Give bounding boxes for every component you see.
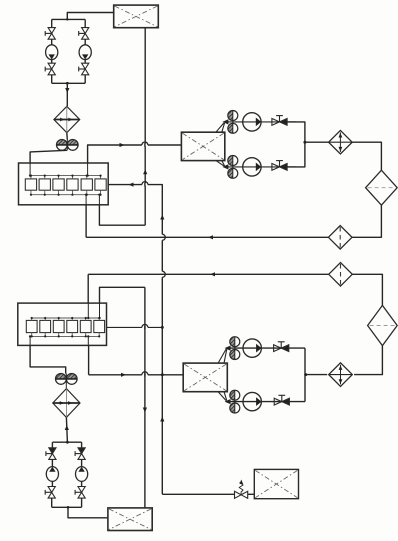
meter M3 (stacked rotors, bottom branch)	[228, 156, 238, 179]
pipe: CH2 top stub (x88)	[87, 303, 89, 319]
valve V3 (isolating, pump 1 discharge)	[45, 63, 55, 75]
valve V8 (check/stop, TB bottom branch)	[274, 395, 289, 405]
pipe: valve V1 to pump P1	[51, 39, 53, 45]
pump P3 (condenser pump, top)	[243, 113, 262, 131]
pipe: filter F1 to meter M1	[66, 133, 69, 140]
pipe: CH2 bottom stub (x88)	[87, 335, 89, 345]
chiller CH2 (6 compressor modules)	[18, 303, 107, 345]
chiller CH1 (6 compressor modules)	[19, 163, 109, 205]
pipe: node N2 branch riser	[304, 348, 306, 402]
nozzle arrow into tank TA bottom-right	[216, 161, 229, 170]
flow device D4 (diamond, double arrow)	[329, 363, 353, 387]
valve V6 (check/stop, bottom branch)	[272, 161, 287, 171]
pipe: pump P7 to valve V11	[51, 481, 53, 486]
valve V10 (check, pump 8 top)	[75, 448, 85, 460]
pipe: valve V9 to pump P7	[51, 459, 53, 466]
pipe: CH1 bottom outlet stub (x99)	[98, 194, 100, 205]
pipe: bottom pump group header	[52, 441, 81, 448]
nozzle arrow into tank TB bottom-right	[218, 392, 231, 405]
line jog: return riser over condenser return	[161, 234, 166, 240]
pump P8	[76, 467, 88, 482]
pipe: CH2 outlet to meter M6	[30, 345, 66, 373]
pipe: top pump group header	[52, 19, 85, 27]
line hop: condenser supply over vertical main	[142, 142, 148, 147]
filter F1 (diamond strainer)	[54, 106, 80, 132]
pipe: CT2 outlet down to D4	[354, 346, 382, 375]
pipe: CH2 top stub (x99)	[98, 303, 100, 319]
relief valve RV1 (spring)	[235, 480, 248, 499]
pipe: pumps to collector	[52, 75, 85, 84]
pipe: CH2 right port to return riser	[107, 326, 163, 328]
pipe: filter F2 to bottom pump group with arrow	[65, 417, 69, 442]
pipe: TA top branch	[224, 121, 296, 123]
pipe: return riser bottom elbow to relief valve	[162, 493, 234, 495]
line hop: CH2 right port over vertical main	[142, 324, 148, 329]
valve V7 (check/stop, TB top branch)	[274, 342, 289, 352]
valve V11 (isolating, pump 7 bottom)	[45, 487, 55, 499]
pipe: CT1 outlet down	[352, 205, 381, 237]
pipe: TA bottom branch	[224, 166, 296, 168]
flow device D3 (diamond, dashed)	[329, 263, 353, 287]
flow meter M6 (twin rotors)	[56, 374, 78, 385]
junction: pump group outlet	[66, 82, 69, 85]
pipe: pump P1 to valve V3	[51, 60, 53, 64]
pipe: CH1 right port return line with arrow	[108, 183, 162, 495]
pipe: down to filter F1 with flow arrow	[65, 83, 69, 106]
cooling tower CT2 (large diamond)	[368, 305, 398, 345]
pump P5 (condenser pump, TB top)	[243, 339, 262, 357]
pipe: bottom collector	[52, 498, 82, 507]
junction: CH2 right port and return riser	[161, 326, 164, 329]
tank T1 (expansion tank, crossed box)	[114, 5, 159, 28]
flow meter M1 (twin rotors)	[57, 139, 79, 150]
pipe: CH2 to tank TB (supply) with arrow	[89, 345, 184, 377]
flow arrow up on return riser (lower)	[160, 417, 164, 422]
pipe: D3 to CH2 (supply) with arrow	[88, 272, 329, 303]
valve V4 (isolating, pump 2 discharge)	[79, 63, 89, 75]
pump P7	[46, 467, 58, 482]
pipe: valve V10 to pump P8	[81, 459, 83, 466]
pipe: pump P8 to valve V12	[81, 481, 83, 486]
pipe: meter M6 to filter F2	[65, 384, 67, 388]
tank T2 (storage tank, crossed box)	[108, 508, 152, 531]
pipe: D4 to node N2	[306, 374, 328, 376]
filter F2 (diamond strainer)	[53, 389, 80, 418]
flow device D1 (diamond, double arrow)	[329, 130, 353, 154]
flow arrow up on return riser (upper)	[160, 215, 164, 220]
pipe: D3 to cooling tower CT2	[353, 274, 383, 305]
pump P4 (condenser pump, bottom)	[243, 158, 262, 176]
tank TA (condenser water tank)	[181, 132, 224, 160]
pipe: D1 to cooling tower CT1	[352, 142, 381, 170]
pipe: CH2 bottom stub (x30)	[29, 335, 31, 345]
pipe: collector to storage tank T2	[67, 506, 108, 518]
pipe: TA bottom branch to node N1	[287, 142, 305, 167]
pipe: CH1 top inlet stub (left)	[29, 163, 31, 177]
cooling tower CT1 (large diamond)	[366, 170, 398, 205]
drain box B1 (crossed box)	[254, 469, 298, 498]
pipe: node N1 to flow device D1	[305, 141, 329, 143]
junction: TB supply and return riser	[161, 373, 164, 376]
pipe: CH1 to tank TA (condenser supply) with arrow	[88, 143, 182, 163]
valve V9 (check, pump 7 top)	[46, 448, 56, 460]
pipe: vertical main lower (to storage tank T2)	[144, 287, 146, 508]
valve V1 (isolating, pump 1 suction)	[45, 28, 55, 40]
flow device D2 (diamond, dashed)	[328, 226, 352, 250]
pipe: tank T1 outlet down (vertical main V145 upper)	[144, 28, 146, 226]
nozzle arrow into tank TA top-right	[216, 119, 229, 132]
junction node N2	[304, 373, 307, 376]
valve V2 (isolating, pump 2 suction)	[79, 28, 89, 40]
pipe: meter M1 to chiller CH1 inlet	[30, 150, 67, 163]
line hop: TB supply over vertical main	[142, 372, 148, 377]
valve V12 (isolating, pump 8 bottom)	[75, 487, 85, 499]
pipe: pump P2 to valve V4	[84, 60, 86, 64]
line jog: return riser over CH2 supply	[161, 271, 166, 277]
meter M5 (stacked rotors, TB bottom)	[230, 390, 240, 413]
pipe: relief valve to drain box	[248, 493, 255, 495]
valve V5 (check/stop, top branch)	[272, 116, 287, 126]
meter M2 (stacked rotors, top branch)	[228, 111, 238, 134]
junction node N1	[303, 141, 306, 144]
pipe: elbow to chiller CH1 bottom port	[99, 205, 145, 225]
pump P2	[79, 45, 91, 60]
pipe: TB bottom branch	[226, 401, 305, 403]
pipe: CH1 bottom outlet stub (x86)	[85, 194, 87, 205]
pipe: CH2 top port elbow from vertical main	[100, 287, 145, 303]
pipe: CH1 top inlet stub (right)	[86, 163, 88, 177]
line hop: CH1 return over vertical main	[142, 182, 148, 187]
flow arrow down on vertical main lower	[143, 408, 147, 413]
tank TB (condenser water tank)	[183, 363, 227, 392]
pipe: TB top branch	[226, 347, 305, 349]
flow arrow up on vertical main	[143, 169, 147, 174]
nozzle arrow into tank TB top-right	[218, 346, 231, 364]
pipe: D2 back to CH1 (condenser return) with arrow	[86, 205, 328, 240]
pipe: TA top branch to node N1	[287, 122, 305, 142]
pump P6 (condenser pump, TB bottom)	[243, 392, 262, 410]
pump P1	[46, 45, 58, 60]
pipe: valve V2 to pump P2	[84, 39, 86, 45]
pipe: riser to expansion tank T1	[66, 13, 114, 21]
meter M4 (stacked rotors, TB top)	[230, 337, 240, 360]
